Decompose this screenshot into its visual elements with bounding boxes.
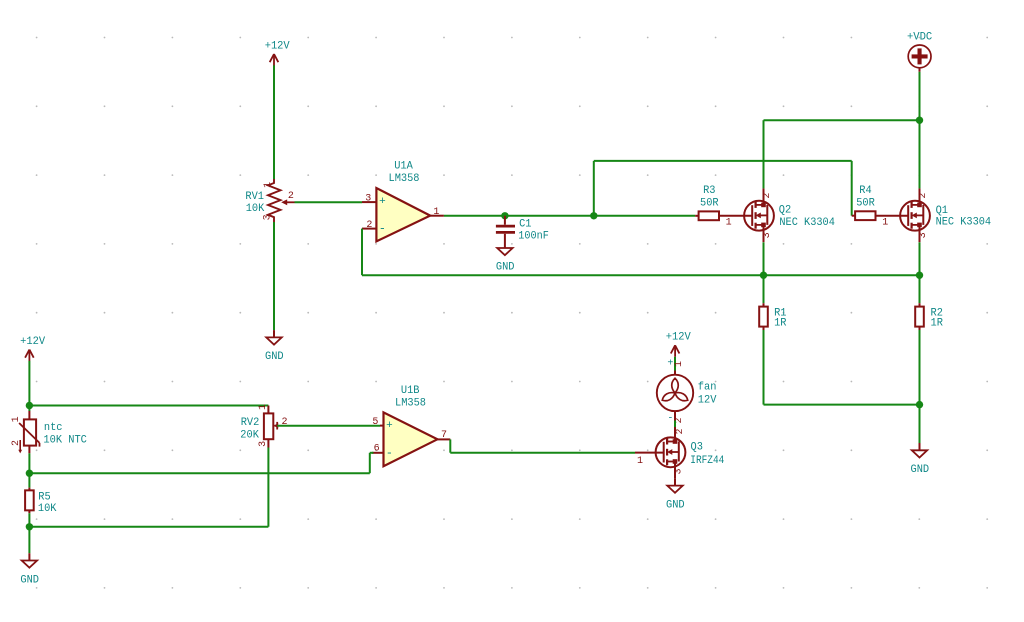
wire R1 down xyxy=(763,330,765,405)
svg-text:1: 1 xyxy=(11,416,22,422)
svg-text:-: - xyxy=(667,414,673,425)
ground below RV1 xyxy=(265,330,284,363)
svg-text:2: 2 xyxy=(762,193,773,199)
svg-text:1: 1 xyxy=(882,217,888,228)
wire pin6 elbow xyxy=(370,452,374,454)
svg-text:1: 1 xyxy=(433,207,439,218)
thermistor TH1 ntc 10K xyxy=(19,411,87,453)
ground below Q3 xyxy=(666,478,685,511)
wire NTC top to RV2 pin1 xyxy=(29,405,268,407)
svg-text:10K: 10K xyxy=(246,203,265,215)
power symbol +12V lower xyxy=(20,336,45,361)
wire bottom node to RV2 pin3 xyxy=(29,526,268,528)
svg-text:R4: R4 xyxy=(859,185,872,197)
svg-text:+12V: +12V xyxy=(666,332,691,344)
wire U1A output to R3 xyxy=(444,215,695,217)
wire to NTC xyxy=(28,361,30,411)
op-amp U1A LM358 xyxy=(362,161,444,242)
potentiometer RV2 20K xyxy=(240,406,278,448)
junction divider mid xyxy=(26,470,33,477)
svg-text:R5: R5 xyxy=(38,491,50,503)
svg-text:NEC K3304: NEC K3304 xyxy=(779,217,835,229)
svg-text:50R: 50R xyxy=(700,197,719,209)
capacitor C1 100nF xyxy=(496,216,549,248)
transistor Q2 (N-MOSFET) xyxy=(744,188,774,242)
resistor R3 leads xyxy=(695,215,698,217)
resistor R5 leads xyxy=(28,488,30,492)
svg-text:2: 2 xyxy=(918,193,929,199)
wire NTC to mid node xyxy=(28,453,30,473)
potentiometer RV1 10K xyxy=(245,179,294,222)
resistor R2 leads xyxy=(919,303,921,307)
svg-text:ntc: ntc xyxy=(44,422,63,434)
wire to GND xyxy=(28,527,30,553)
svg-text:GND: GND xyxy=(496,261,515,273)
power symbol +12V fan xyxy=(666,332,691,357)
svg-text:100nF: 100nF xyxy=(518,230,549,242)
power symbol +VDC xyxy=(907,31,933,72)
svg-text:GND: GND xyxy=(666,499,685,511)
wire up to RV2 pin3 xyxy=(267,448,269,527)
junction rail x Q1/R2 xyxy=(916,272,923,279)
svg-text:+: + xyxy=(386,420,393,432)
wire U1B out down xyxy=(449,439,451,452)
svg-text:GND: GND xyxy=(20,574,39,586)
resistor R3 body xyxy=(699,211,719,220)
svg-text:1: 1 xyxy=(258,404,269,410)
svg-text:20K: 20K xyxy=(240,430,259,442)
op-amp U1B LM358 xyxy=(372,385,450,466)
svg-text:1R: 1R xyxy=(774,318,787,330)
resistor R4 leads xyxy=(852,215,855,217)
svg-text:3: 3 xyxy=(762,232,773,238)
svg-text:GND: GND xyxy=(265,351,284,363)
svg-text:fan: fan xyxy=(698,382,717,394)
svg-text:+12V: +12V xyxy=(265,40,290,52)
wire +VDC rail down xyxy=(919,72,921,189)
wire rail to R1 xyxy=(763,275,765,303)
wire RV1 wiper to U1A pin3 xyxy=(295,201,363,203)
svg-text:2: 2 xyxy=(288,191,294,202)
resistor R4 body xyxy=(855,211,875,220)
svg-text:7: 7 xyxy=(441,430,447,441)
wire U1B out to Q3 gate xyxy=(450,452,635,454)
wire from +12V to RV1 pin1 xyxy=(273,65,275,179)
svg-text:50R: 50R xyxy=(856,197,875,209)
svg-text:R3: R3 xyxy=(703,185,715,197)
svg-text:Q2: Q2 xyxy=(779,204,791,216)
svg-text:3: 3 xyxy=(258,441,269,447)
wire U1A pin2 down xyxy=(361,229,363,276)
wire feedback / source rail xyxy=(362,274,920,276)
svg-text:RV2: RV2 xyxy=(241,417,260,429)
wire Q1 source down xyxy=(919,242,921,275)
junction R5 bottom node xyxy=(26,523,33,530)
ground lower left xyxy=(20,553,39,586)
junction output tee xyxy=(590,212,597,219)
transistor Q1 (N-MOSFET) xyxy=(900,188,930,242)
svg-text:2: 2 xyxy=(675,428,686,434)
svg-text:12V: 12V xyxy=(698,394,717,406)
wire down to R4 xyxy=(851,161,853,216)
svg-text:Q3: Q3 xyxy=(691,442,703,454)
svg-text:GND: GND xyxy=(911,464,930,476)
svg-text:1: 1 xyxy=(637,456,643,467)
wire mid to R5 xyxy=(28,473,30,487)
svg-text:-: - xyxy=(379,222,386,236)
resistor R2 body xyxy=(915,307,924,327)
svg-text:10K NTC: 10K NTC xyxy=(43,434,87,446)
svg-text:1: 1 xyxy=(726,217,732,228)
wire mid node to U1B pin6 xyxy=(29,472,369,474)
svg-text:U1B: U1B xyxy=(401,385,420,397)
svg-text:U1A: U1A xyxy=(394,161,413,173)
power symbol +12V top xyxy=(265,40,290,65)
junction top rail xyxy=(916,117,923,124)
svg-text:LM358: LM358 xyxy=(395,397,426,409)
wire R2 to GND xyxy=(919,330,921,443)
resistor R1 leads xyxy=(763,303,765,307)
wire R1 to R2 bottom xyxy=(764,404,920,406)
svg-text:1: 1 xyxy=(263,182,274,188)
wire RV1 pin3 to GND xyxy=(273,222,275,330)
wire top rail to Q2 drain xyxy=(764,119,920,121)
svg-text:3: 3 xyxy=(918,232,929,238)
junction rail x Q2/R1 xyxy=(760,272,767,279)
junction bottom join xyxy=(916,401,923,408)
wire down to Q2 drain xyxy=(763,120,765,188)
svg-text:+: + xyxy=(667,358,673,369)
wire rail to R2 xyxy=(919,275,921,303)
wire upper horizontal to R4 xyxy=(594,160,852,162)
Q3 gate lead xyxy=(635,452,664,454)
junction at C1 xyxy=(501,212,508,219)
wire tee up xyxy=(593,161,595,216)
svg-text:10K: 10K xyxy=(38,503,57,515)
svg-text:3: 3 xyxy=(673,468,684,474)
fan M1 12V xyxy=(657,371,717,421)
svg-text:2: 2 xyxy=(366,220,372,231)
svg-text:Q1: Q1 xyxy=(936,205,949,217)
svg-text:-: - xyxy=(386,446,393,460)
transistor Q3 (N-MOSFET) xyxy=(656,427,686,478)
resistor R5 body xyxy=(25,490,34,510)
svg-text:LM358: LM358 xyxy=(389,173,420,185)
wire Q2 source down xyxy=(763,242,765,275)
svg-text:RV1: RV1 xyxy=(245,191,264,203)
wire to fan xyxy=(674,357,676,371)
svg-text:5: 5 xyxy=(372,417,378,428)
svg-text:+: + xyxy=(379,196,386,208)
svg-text:+12V: +12V xyxy=(20,336,45,348)
resistor R1 body xyxy=(759,307,768,327)
svg-text:+VDC: +VDC xyxy=(907,31,933,43)
svg-text:3: 3 xyxy=(365,193,371,204)
ground below C1 xyxy=(496,248,515,273)
svg-text:IRFZ44: IRFZ44 xyxy=(690,455,724,467)
svg-text:6: 6 xyxy=(374,444,380,455)
svg-text:1: 1 xyxy=(674,361,685,367)
svg-text:NEC K3304: NEC K3304 xyxy=(936,217,992,229)
svg-text:1R: 1R xyxy=(931,318,944,330)
wire fan to Q3 drain xyxy=(674,421,676,428)
wire up to pin6 xyxy=(369,453,371,473)
pin 2 of NTC with arrows xyxy=(11,440,22,453)
ground bottom right xyxy=(911,443,930,476)
wire RV2 wiper to U1B pin5 xyxy=(277,425,380,427)
svg-text:3: 3 xyxy=(263,214,274,220)
junction NTC top node xyxy=(26,402,33,409)
svg-text:C1: C1 xyxy=(519,219,532,231)
wire R5 down xyxy=(28,513,30,527)
